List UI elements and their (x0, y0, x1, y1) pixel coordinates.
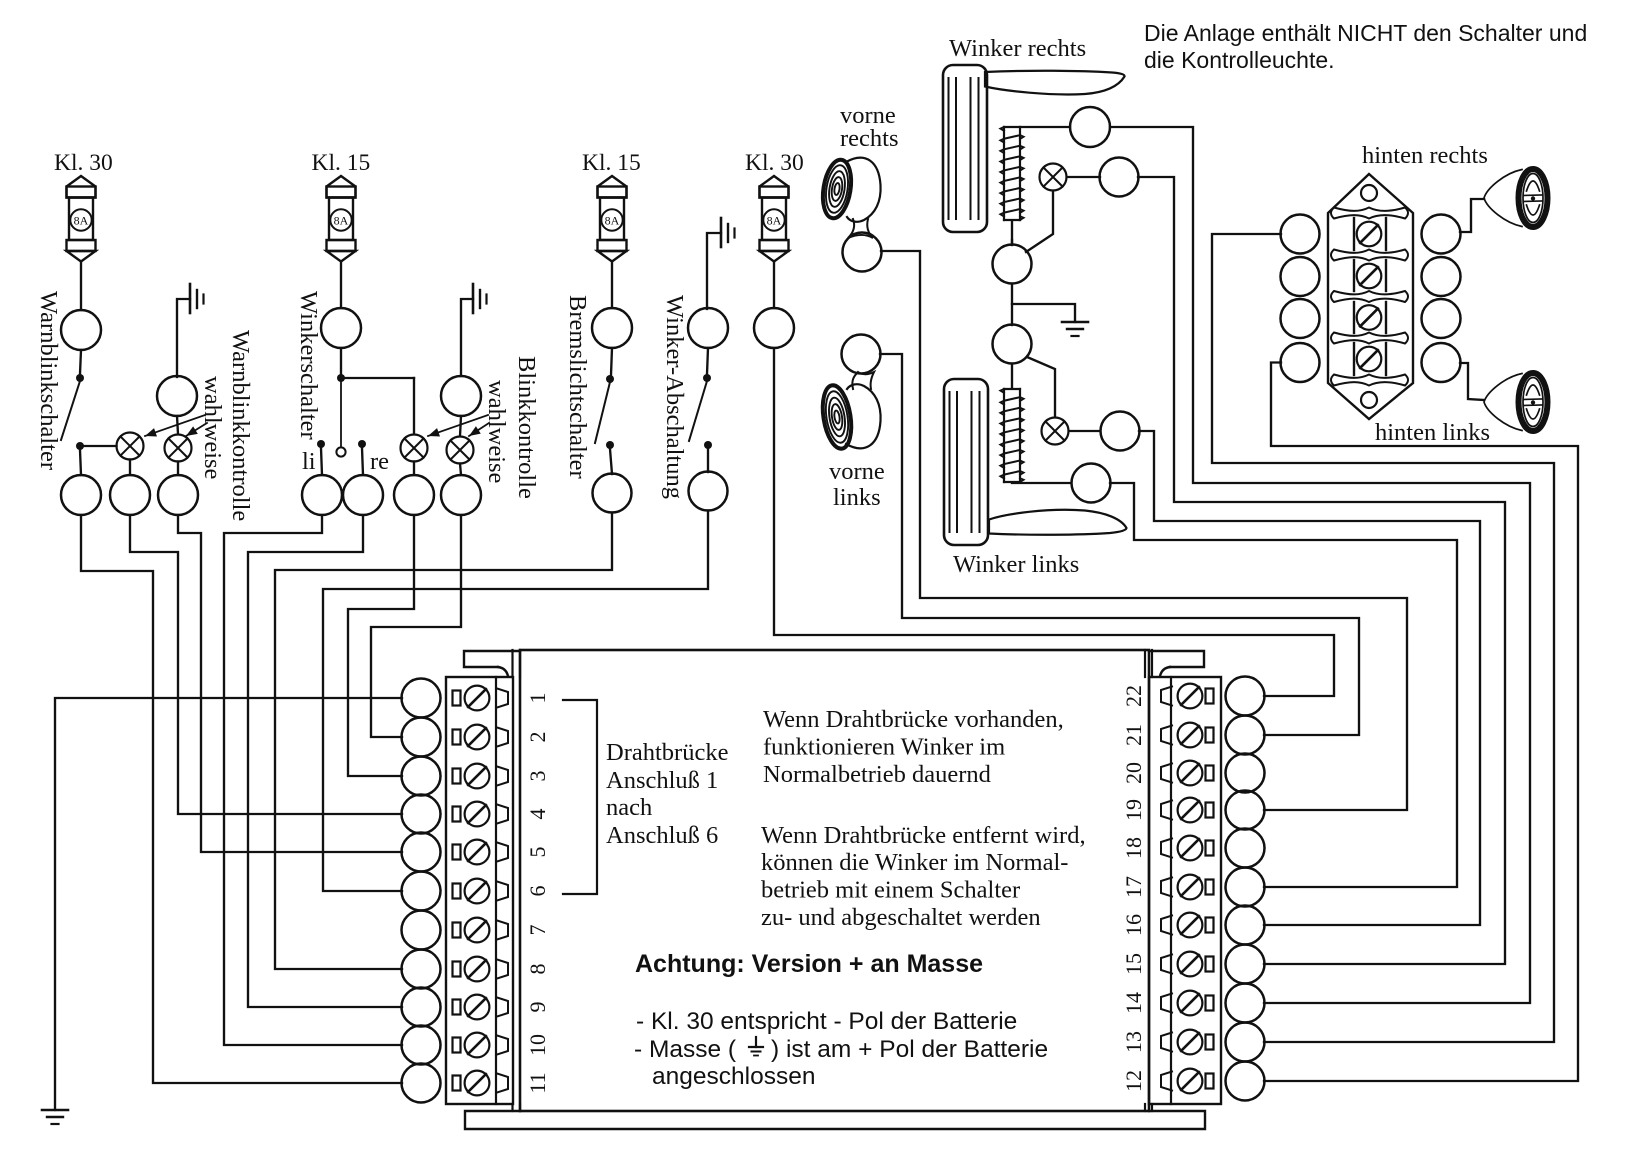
svg-text:Kl. 15: Kl. 15 (312, 150, 371, 176)
svg-text:20: 20 (1121, 762, 1146, 784)
svg-text:8: 8 (525, 964, 550, 975)
svg-text:wahlweise: wahlweise (199, 376, 226, 480)
svg-text:funktionieren Winker im: funktionieren Winker im (763, 734, 1005, 761)
svg-text:Kl. 30: Kl. 30 (745, 150, 804, 176)
svg-text:5: 5 (525, 847, 550, 858)
svg-text:6: 6 (525, 886, 550, 897)
svg-text:Wenn Drahtbrücke entfernt wird: Wenn Drahtbrücke entfernt wird, (761, 822, 1086, 849)
svg-text:21: 21 (1121, 724, 1146, 746)
svg-text:3: 3 (525, 771, 550, 782)
svg-text:hinten links: hinten links (1375, 419, 1490, 446)
svg-text:- Masse (: - Masse ( (634, 1036, 737, 1063)
svg-text:die Kontrolleuchte.: die Kontrolleuchte. (1144, 47, 1335, 73)
svg-text:8A: 8A (74, 214, 89, 228)
svg-text:zu- und abgeschaltet werden: zu- und abgeschaltet werden (761, 904, 1041, 931)
svg-text:Warnblinkschalter: Warnblinkschalter (35, 291, 62, 470)
svg-text:Warnblinkkontrolle: Warnblinkkontrolle (227, 330, 254, 521)
svg-text:4: 4 (525, 809, 550, 820)
svg-text:links: links (833, 484, 881, 511)
svg-text:12: 12 (1121, 1070, 1146, 1092)
svg-text:11: 11 (525, 1072, 550, 1093)
svg-text:rechts: rechts (840, 125, 899, 152)
svg-text:Anschluß 6: Anschluß 6 (606, 822, 718, 849)
svg-text:- Kl. 30 entspricht - Pol der: - Kl. 30 entspricht - Pol der Batterie (636, 1008, 1017, 1035)
svg-text:17: 17 (1121, 876, 1146, 898)
svg-text:Normalbetrieb dauernd: Normalbetrieb dauernd (763, 761, 991, 788)
svg-text:8A: 8A (334, 214, 349, 228)
svg-text:angeschlossen: angeschlossen (652, 1063, 815, 1090)
svg-text:Anschluß 1: Anschluß 1 (606, 767, 718, 794)
svg-text:re: re (370, 448, 389, 475)
svg-text:1: 1 (525, 693, 550, 704)
svg-text:Bremslichtschalter: Bremslichtschalter (564, 295, 591, 479)
svg-text:Kl. 30: Kl. 30 (54, 150, 113, 176)
svg-text:13: 13 (1121, 1031, 1146, 1053)
svg-text:) ist am + Pol der Batterie: ) ist am + Pol der Batterie (771, 1036, 1048, 1063)
svg-text:2: 2 (525, 732, 550, 743)
svg-text:Die Anlage enthält NICHT den S: Die Anlage enthält NICHT den Schalter un… (1144, 20, 1587, 46)
svg-text:19: 19 (1121, 799, 1146, 821)
svg-text:können die Winker im Normal-: können die Winker im Normal- (761, 849, 1068, 876)
svg-text:Winker rechts: Winker rechts (949, 35, 1086, 62)
svg-text:Drahtbrücke: Drahtbrücke (606, 739, 729, 766)
svg-text:wahlweise: wahlweise (483, 380, 510, 484)
svg-text:Blinkkontrolle: Blinkkontrolle (513, 356, 540, 499)
svg-text:16: 16 (1121, 914, 1146, 936)
svg-text:li: li (302, 448, 316, 475)
svg-text:nach: nach (606, 794, 652, 821)
svg-text:betrieb mit einem Schalter: betrieb mit einem Schalter (761, 877, 1020, 904)
svg-text:8A: 8A (767, 214, 782, 228)
svg-text:Achtung: Version + an Masse: Achtung: Version + an Masse (635, 950, 983, 978)
svg-text:Winkerschalter: Winkerschalter (295, 291, 322, 440)
svg-text:Winker-Abschaltung: Winker-Abschaltung (661, 295, 688, 499)
svg-text:Winker links: Winker links (953, 551, 1079, 578)
svg-text:Kl. 15: Kl. 15 (582, 150, 641, 176)
svg-text:14: 14 (1121, 992, 1146, 1014)
svg-text:8A: 8A (605, 214, 620, 228)
svg-text:9: 9 (525, 1002, 550, 1013)
svg-text:hinten rechts: hinten rechts (1362, 142, 1488, 169)
svg-text:Wenn Drahtbrücke vorhanden,: Wenn Drahtbrücke vorhanden, (763, 706, 1064, 733)
svg-text:18: 18 (1121, 837, 1146, 859)
svg-text:15: 15 (1121, 953, 1146, 975)
svg-text:7: 7 (525, 925, 550, 936)
svg-text:10: 10 (525, 1034, 550, 1056)
svg-text:22: 22 (1121, 685, 1146, 707)
svg-text:vorne: vorne (829, 458, 885, 485)
